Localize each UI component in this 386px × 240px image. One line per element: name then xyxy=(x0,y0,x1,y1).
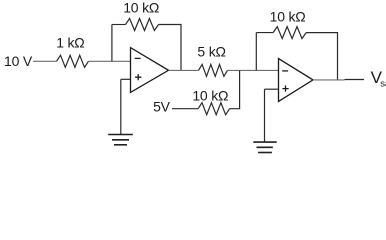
wire feedback top right segment and right leg down to U1 output xyxy=(159,25,182,71)
wire feedback left leg down from R2 to node A xyxy=(111,25,113,62)
resistor R3 5 kOhm xyxy=(199,64,228,76)
wire from R1 to U1 inverting input (node A) xyxy=(89,60,131,62)
wire from R3 to U2 inverting input (node B) xyxy=(228,69,279,71)
op-amp U1 plus sign xyxy=(135,74,141,80)
wire U1 non-inverting input to ground leg xyxy=(121,78,131,80)
ground symbol GND1 xyxy=(108,135,133,145)
wire from R5 up to node B xyxy=(230,70,240,108)
svg-text:10 kΩ: 10 kΩ xyxy=(192,87,228,103)
svg-text:sal: sal xyxy=(380,79,386,90)
wire U2 output to Vsal terminal xyxy=(313,79,345,81)
svg-text:10 kΩ: 10 kΩ xyxy=(270,9,306,25)
svg-text:5 kΩ: 5 kΩ xyxy=(197,43,225,59)
wire feedback top left segment of U2 xyxy=(256,32,273,34)
op-amp U2 triangle xyxy=(279,59,314,102)
op-amp U2 plus sign xyxy=(282,86,288,92)
wire U2 non-inverting input to ground leg xyxy=(265,88,279,90)
resistor R5 10 kOhm from 5V branch xyxy=(198,103,230,115)
resistor R4 10 kOhm feedback of U2 xyxy=(273,27,306,39)
wire feedback left leg of U2 down to node B xyxy=(255,33,257,71)
resistor R2 10 kOhm feedback of U1 xyxy=(126,19,159,31)
wire output final segment xyxy=(345,79,365,81)
wire from 5V source to R5 xyxy=(172,108,198,110)
wire feedback top left segment xyxy=(112,24,126,26)
svg-text:10 V: 10 V xyxy=(4,53,33,69)
op-amp U1 triangle xyxy=(131,48,169,93)
op-amp U2 minus sign xyxy=(282,70,288,72)
op-amp U1 minus sign xyxy=(135,57,141,59)
svg-text:5V: 5V xyxy=(153,99,171,115)
wire input from 10 V source to R1 xyxy=(33,60,57,62)
svg-text:1 kΩ: 1 kΩ xyxy=(56,34,84,50)
wire ground leg vertical of U2 xyxy=(264,89,266,142)
svg-text:10 kΩ: 10 kΩ xyxy=(123,0,159,16)
ground symbol GND2 xyxy=(253,142,276,152)
resistor R1 1 kOhm xyxy=(57,55,89,67)
wire feedback top right segment and right leg down to U2 output xyxy=(306,33,337,80)
wire ground leg vertical of U1 xyxy=(120,79,122,134)
wire U1 output to R3 xyxy=(169,69,199,71)
